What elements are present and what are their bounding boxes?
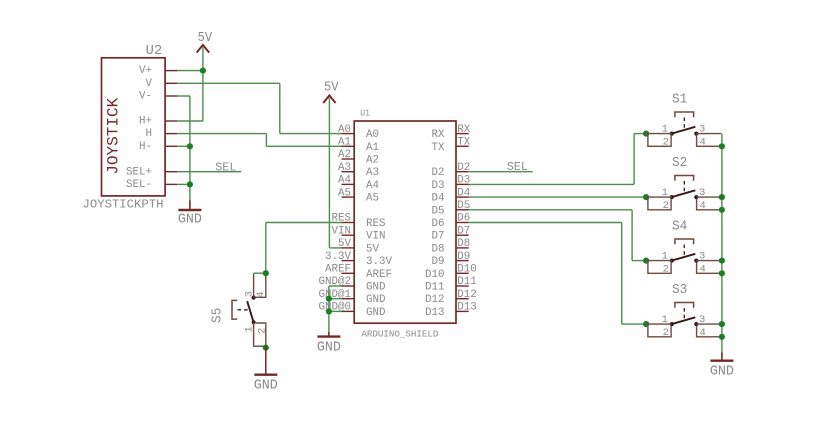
arduino pin D6 (right) <box>432 213 471 230</box>
wire D3 to S1 (vertical jog up) <box>633 134 635 185</box>
svg-text:GND: GND <box>254 379 278 394</box>
wire GND@1 to ground <box>329 298 342 300</box>
arduino pin TX (right) <box>432 137 471 154</box>
switch S2 <box>646 156 721 212</box>
ground symbol (joystick) <box>178 201 202 228</box>
wire GND@2 to ground <box>329 285 342 287</box>
svg-text:D5: D5 <box>432 205 445 217</box>
svg-text:GND: GND <box>366 307 386 319</box>
arduino pin GND (left, net GND@1) <box>319 289 386 306</box>
svg-text:3: 3 <box>699 187 705 199</box>
junction GND@0 <box>326 308 332 314</box>
wire GND vertical (V-/H-/SEL-) <box>189 96 191 202</box>
joystick pin V <box>146 78 178 90</box>
junction 5V / V+ <box>200 68 206 74</box>
svg-text:V-: V- <box>139 91 152 103</box>
junction bus / S4 pin 4 <box>719 270 725 276</box>
switch S2 pin 2 <box>648 197 671 210</box>
svg-text:D12: D12 <box>425 294 445 306</box>
svg-text:A0: A0 <box>366 129 379 141</box>
switch S4 lever <box>672 254 696 261</box>
svg-text:V: V <box>146 78 153 90</box>
svg-text:A1: A1 <box>338 137 351 149</box>
wire D6 to S3 (vertical jog down) <box>621 223 623 325</box>
wire V+ to 5V net <box>177 70 203 72</box>
wire 5V into pin <box>329 247 341 249</box>
arduino pin D2 (right) <box>432 162 471 179</box>
switch S1 pin 1 <box>646 133 671 135</box>
joystick pin H <box>146 128 178 140</box>
svg-text:A4: A4 <box>366 180 379 192</box>
svg-text:D7: D7 <box>432 231 445 243</box>
svg-text:D3: D3 <box>432 180 445 192</box>
switch S1 pin 2 <box>648 134 671 147</box>
wire D6 to S3 pin 1 <box>622 323 646 325</box>
svg-text:2: 2 <box>663 136 669 148</box>
wire V to A0 (segment right) <box>177 82 279 84</box>
svg-text:D12: D12 <box>457 289 477 301</box>
wire H+ to 5V net <box>177 120 203 122</box>
svg-text:GND: GND <box>366 282 386 294</box>
wire S5 pin 2 to ground <box>265 346 267 374</box>
svg-text:AREF: AREF <box>325 264 351 276</box>
svg-text:A3: A3 <box>366 167 379 179</box>
wire D5 to S4 pin 1 <box>632 260 646 262</box>
svg-text:1: 1 <box>662 314 668 326</box>
svg-text:D13: D13 <box>425 307 445 319</box>
arduino pin D7 (right) <box>432 225 471 242</box>
arduino pin D3 (right) <box>432 175 471 192</box>
svg-text:S2: S2 <box>672 156 687 171</box>
svg-text:1: 1 <box>662 123 668 135</box>
ground symbol (S5) <box>254 375 278 394</box>
switch S5 pin 2 <box>253 323 266 346</box>
arduino pin A3 (left, net A3) <box>338 162 379 179</box>
switch S3 lever <box>672 317 696 324</box>
arduino pin GND (left, net GND@2) <box>319 276 386 293</box>
joystick pin V- <box>139 91 177 103</box>
svg-text:V+: V+ <box>139 65 152 77</box>
svg-text:GND: GND <box>710 365 734 380</box>
svg-text:D10: D10 <box>457 264 477 276</box>
switch S2 pin 1 <box>646 196 671 198</box>
power 5V symbol (above arduino) <box>323 81 339 103</box>
switch S4 contacts <box>670 259 674 263</box>
svg-text:D10: D10 <box>425 269 445 281</box>
svg-text:ARDUINO_SHIELD: ARDUINO_SHIELD <box>361 329 438 340</box>
svg-text:S5: S5 <box>210 308 225 323</box>
junction S1 pin 1 <box>643 131 649 137</box>
ground symbol (arduino) <box>317 332 341 356</box>
svg-text:SEL-: SEL- <box>126 179 152 191</box>
svg-text:U1: U1 <box>360 109 370 119</box>
svg-text:A3: A3 <box>338 162 351 174</box>
switch S3 pin 4 <box>697 326 722 337</box>
switch S2 contacts <box>670 195 674 199</box>
switch S5 pin 3 <box>253 274 255 298</box>
arduino pin RES (left, net RES) <box>332 213 386 230</box>
switch S5 lever <box>247 301 253 322</box>
arduino pin A5 (left, net A5) <box>338 187 379 204</box>
switch S5 button actuator <box>232 300 237 319</box>
arduino pin AREF (left, net AREF) <box>325 264 392 281</box>
joystick pin SEL- <box>126 179 177 191</box>
junction bus / S3 pin 4 <box>719 334 725 340</box>
switch S4 pin 4 <box>697 263 722 274</box>
svg-text:D5: D5 <box>457 200 470 212</box>
switch S5 <box>210 273 268 346</box>
arduino pin A1 (left, net A1) <box>338 137 379 154</box>
joystick U2 body <box>102 58 166 196</box>
switch S3 pin 1 <box>646 323 671 325</box>
switch S3 button actuator <box>675 303 694 308</box>
junction bus / S2 pin 3 <box>719 194 725 200</box>
switch S1 pin 3 <box>696 133 721 135</box>
svg-text:AREF: AREF <box>366 269 392 281</box>
joystick pin H- <box>139 141 177 153</box>
wire RES to S5 (vertical) <box>265 223 267 274</box>
svg-text:4: 4 <box>699 200 705 212</box>
arduino pin D9 (right) <box>432 251 471 268</box>
svg-text:1: 1 <box>662 187 668 199</box>
junction bus / S2 pin 4 <box>719 207 725 213</box>
svg-text:S4: S4 <box>672 219 687 234</box>
svg-text:A2: A2 <box>366 155 379 167</box>
svg-text:S3: S3 <box>672 283 687 298</box>
svg-text:D13: D13 <box>457 302 477 314</box>
arduino pin D12 (right) <box>425 289 477 306</box>
junction bus / S4 pin 3 <box>719 258 725 264</box>
switch S2 pin 3 <box>696 196 721 198</box>
svg-text:RX: RX <box>432 129 445 141</box>
svg-text:D6: D6 <box>432 218 445 230</box>
wire SEL+ net stub with label <box>177 171 241 173</box>
wire 5V down to 5V pin <box>328 98 330 248</box>
switch S2 button actuator <box>675 176 694 181</box>
svg-text:D8: D8 <box>457 238 470 250</box>
svg-text:3.3V: 3.3V <box>325 251 351 263</box>
svg-text:A2: A2 <box>338 149 351 161</box>
svg-text:D7: D7 <box>457 225 470 237</box>
svg-text:D9: D9 <box>432 256 445 268</box>
switch S5 contacts <box>252 296 256 300</box>
wire V to A0 (into pin A0) <box>280 133 342 135</box>
svg-text:A5: A5 <box>338 187 351 199</box>
svg-text:D4: D4 <box>432 193 445 205</box>
svg-text:A1: A1 <box>366 142 379 154</box>
switch S1 contacts <box>670 132 674 136</box>
svg-text:D3: D3 <box>457 175 470 187</box>
svg-text:D8: D8 <box>432 243 445 255</box>
switch S3 <box>646 283 721 339</box>
svg-text:H-: H- <box>139 141 152 153</box>
svg-text:2: 2 <box>663 263 669 275</box>
svg-text:S1: S1 <box>672 92 687 107</box>
switch S3 pin 2 <box>648 324 671 337</box>
junction bus / S1 pin 4 <box>719 143 725 149</box>
arduino pin VIN (left, net VIN) <box>332 225 386 242</box>
svg-text:2: 2 <box>663 327 669 339</box>
svg-text:TX: TX <box>457 137 470 149</box>
arduino pin 3.3V (left, net 3.3V) <box>325 251 392 268</box>
svg-text:A0: A0 <box>338 124 351 136</box>
joystick pin H+ <box>139 116 177 128</box>
junction H- / GND <box>187 143 193 149</box>
svg-text:SEL+: SEL+ <box>126 166 152 178</box>
svg-text:1: 1 <box>244 326 256 332</box>
svg-text:3.3V: 3.3V <box>366 256 392 268</box>
svg-text:JOYSTICK: JOYSTICK <box>105 97 123 175</box>
switch S4 <box>646 219 721 275</box>
svg-text:TX: TX <box>432 142 445 154</box>
arduino pin D10 (right) <box>425 264 477 281</box>
junction S2 pin 1 <box>643 194 649 200</box>
wire H- to GND <box>177 145 190 147</box>
svg-text:D11: D11 <box>457 276 477 288</box>
switch S5 pin 4 <box>256 273 266 297</box>
wire GND@0 to ground <box>329 310 342 312</box>
svg-text:RES: RES <box>366 218 386 230</box>
arduino pin A0 (left, net A0) <box>338 124 379 141</box>
wire S5 pin3 to pin4 junction <box>254 272 266 274</box>
arduino pin D8 (right) <box>432 238 471 255</box>
switch S1 <box>646 92 721 148</box>
svg-text:VIN: VIN <box>366 231 386 243</box>
power 5V symbol (left) <box>197 31 213 53</box>
wire SEL- to GND <box>177 183 190 185</box>
svg-text:JOYSTICKPTH: JOYSTICKPTH <box>83 197 164 211</box>
joystick pin SEL+ <box>126 166 177 178</box>
switch S4 pin 2 <box>648 261 671 274</box>
arduino pin D13 (right) <box>425 302 477 319</box>
wire D2 SEL net <box>469 171 533 173</box>
svg-text:A5: A5 <box>366 193 379 205</box>
wire D5 to S4 (horizontal) <box>469 209 632 211</box>
svg-text:4: 4 <box>699 263 705 275</box>
svg-text:2: 2 <box>257 328 269 334</box>
svg-text:GND: GND <box>366 294 386 306</box>
svg-text:2: 2 <box>663 200 669 212</box>
switch S3 pin 3 <box>696 323 721 325</box>
arduino pin D11 (right) <box>425 276 477 293</box>
joystick pin V+ <box>139 65 177 77</box>
svg-text:3: 3 <box>699 250 705 262</box>
svg-text:5V: 5V <box>366 243 379 255</box>
svg-text:1: 1 <box>662 250 668 262</box>
svg-text:GND: GND <box>178 213 202 228</box>
wire V to A0 (vertical jog) <box>279 83 281 133</box>
svg-text:U2: U2 <box>146 44 163 59</box>
svg-text:H+: H+ <box>139 116 152 128</box>
svg-text:VIN: VIN <box>332 225 352 237</box>
wire D6 to S3 (horizontal) <box>469 222 622 224</box>
svg-text:SEL: SEL <box>507 160 528 174</box>
arduino pin 5V (left, net 5V) <box>338 238 379 255</box>
junction S3 pin 1 <box>643 321 649 327</box>
svg-text:4: 4 <box>699 327 705 339</box>
svg-text:D9: D9 <box>457 251 470 263</box>
switch S1 button actuator <box>675 112 694 117</box>
arduino pin A2 (left, net A2) <box>338 149 379 166</box>
svg-text:D4: D4 <box>457 187 470 199</box>
switch S5 pin 1 <box>253 322 255 346</box>
wire RES to S5 (horizontal) <box>266 222 342 224</box>
svg-text:D2: D2 <box>432 167 445 179</box>
svg-text:A4: A4 <box>338 175 351 187</box>
junction bus / S3 pin 3 <box>719 321 725 327</box>
arduino shield U1 body <box>354 121 456 323</box>
junction S5 pin 4 / RES <box>263 270 269 276</box>
switch S4 pin 3 <box>696 260 721 262</box>
switch S3 contacts <box>670 322 674 326</box>
arduino pin A4 (left, net A4) <box>338 175 379 192</box>
switch S2 pin 4 <box>697 199 722 210</box>
svg-text:D6: D6 <box>457 213 470 225</box>
arduino pin GND (left, net GND@0) <box>319 302 386 319</box>
wire D3 to S1 (horizontal) <box>469 183 634 185</box>
svg-text:RX: RX <box>457 124 470 136</box>
wire D3 to S1 pin 1 <box>634 133 646 135</box>
svg-text:D11: D11 <box>425 282 445 294</box>
wire ground bus (switch pins 3/4) <box>721 134 723 353</box>
arduino pin D4 (right) <box>432 187 471 204</box>
wire D4 to S2 pin 1 <box>469 196 646 198</box>
switch S4 button actuator <box>675 239 694 244</box>
svg-text:SEL: SEL <box>215 161 236 175</box>
svg-text:H: H <box>146 128 153 140</box>
wire H to A1 (vertical jog) <box>265 134 267 147</box>
wire V- to GND <box>177 95 190 97</box>
svg-text:5V: 5V <box>324 81 339 96</box>
svg-text:GND: GND <box>317 340 341 355</box>
svg-text:3: 3 <box>244 291 256 297</box>
junction S4 pin 1 <box>643 258 649 264</box>
svg-text:D2: D2 <box>457 162 470 174</box>
wire 5V down to H+ row <box>202 47 204 121</box>
svg-text:3: 3 <box>699 123 705 135</box>
wire D5 to S4 (vertical jog down) <box>631 210 633 261</box>
switch S4 pin 1 <box>646 260 671 262</box>
wire H to A1 (into pin A1) <box>266 145 341 147</box>
junction GND@1 <box>326 296 332 302</box>
switch S1 pin 4 <box>697 136 722 147</box>
switch S1 lever <box>672 127 696 134</box>
arduino pin D5 (right) <box>432 200 471 217</box>
switch S2 lever <box>672 190 696 197</box>
junction SEL- / GND <box>187 181 193 187</box>
svg-text:3: 3 <box>699 314 705 326</box>
svg-text:4: 4 <box>255 291 267 297</box>
svg-text:5V: 5V <box>198 31 213 46</box>
arduino pin RX (right) <box>432 124 471 141</box>
junction S5 pin 2 / GND <box>263 345 269 351</box>
wire H to A1 (segment right) <box>177 133 266 135</box>
svg-text:4: 4 <box>699 136 705 148</box>
ground symbol (switch bus) <box>710 352 734 379</box>
wire ground vertical (GND pins) <box>328 286 330 332</box>
